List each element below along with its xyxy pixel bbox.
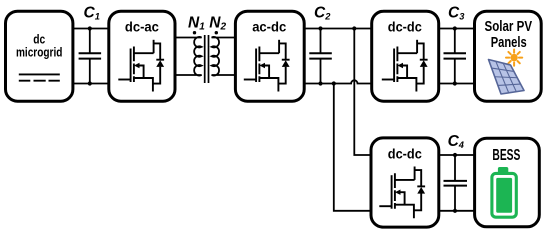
svg-text:N2: N2 — [209, 15, 226, 33]
svg-text:dc-dc: dc-dc — [388, 20, 423, 35]
svg-text:dc-dc: dc-dc — [388, 146, 423, 161]
svg-text:BESS: BESS — [492, 147, 520, 164]
svg-text:C3: C3 — [448, 5, 465, 22]
svg-text:Solar PV: Solar PV — [485, 18, 533, 35]
svg-text:C1: C1 — [84, 5, 100, 22]
svg-text:ac-dc: ac-dc — [252, 20, 287, 35]
svg-text:dc-ac: dc-ac — [125, 20, 160, 35]
svg-text:Panels: Panels — [491, 34, 527, 51]
svg-text:microgrid: microgrid — [16, 45, 63, 60]
svg-text:C2: C2 — [314, 5, 331, 22]
svg-text:C4: C4 — [448, 133, 465, 150]
svg-text:N1: N1 — [188, 15, 205, 33]
